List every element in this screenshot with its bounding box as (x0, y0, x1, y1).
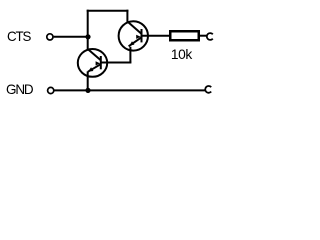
terminal GND (open circle) (48, 87, 54, 93)
terminal CTS (open circle) (47, 34, 53, 40)
Q1 collector diagonal (88, 49, 101, 60)
Q1 emitter lead to bottom rail (87, 71, 89, 91)
Q1 circle (78, 49, 107, 77)
wire GND rail (54, 89, 205, 91)
resistor R1 box (170, 31, 199, 40)
wire CTS terminal to junction (54, 36, 89, 38)
node junction dot on GND rail (85, 88, 90, 93)
wire top rail horizontal (87, 10, 129, 12)
svg-text:10k: 10k (171, 46, 193, 62)
Q1 base bar (100, 56, 102, 69)
Q1 collector lead from junction (87, 36, 89, 49)
Q2 emitter arrow into bar (136, 35, 141, 39)
Q2 circle (119, 21, 148, 50)
svg-text:GND: GND (6, 81, 34, 97)
wire Q2 emitter to Q1 base (L wire) (101, 62, 132, 64)
Q1 arrow into bar (96, 61, 101, 65)
Q2 emitter inner vertical (129, 47, 131, 63)
wire top rail right vertical down to Q2 collector (126, 10, 128, 24)
Q2 base bar (141, 29, 143, 42)
Q2 collector diagonal (128, 22, 142, 34)
node junction dot on CTS line (85, 34, 90, 39)
terminal right bottom (open C) (205, 86, 211, 93)
terminal right top (open C) (207, 33, 213, 40)
Q2 arrow on lower diagonal (129, 41, 134, 45)
Q2 emitter diagonal (129, 37, 142, 46)
svg-text:CTS: CTS (7, 28, 31, 44)
wire resistor to right terminal (200, 35, 208, 37)
transistor Q1 (lower) (78, 36, 107, 92)
Q1 emitter diagonal (88, 64, 101, 72)
Q2 base lead (142, 35, 170, 37)
Q1 arrow on lower diagonal (88, 67, 94, 72)
transistor Q2 (upper) (119, 21, 170, 62)
wire top rail left vertical (87, 10, 89, 37)
